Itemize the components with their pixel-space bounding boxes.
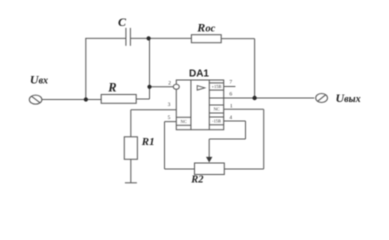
svg-text:4: 4	[229, 115, 232, 121]
svg-text:1: 1	[230, 104, 233, 110]
svg-text:7: 7	[229, 80, 232, 86]
svg-text:5: 5	[168, 115, 171, 121]
svg-text:Uвх: Uвх	[30, 73, 48, 87]
svg-text:Uвых: Uвых	[336, 91, 361, 105]
svg-text:NC: NC	[213, 107, 219, 112]
svg-text:+15В: +15В	[212, 84, 222, 89]
svg-text:R1: R1	[141, 136, 155, 148]
svg-text:NC: NC	[181, 119, 187, 124]
svg-text:R: R	[107, 80, 116, 94]
svg-text:2: 2	[168, 80, 171, 86]
svg-text:Rос: Rос	[196, 20, 215, 34]
svg-text:DA1: DA1	[189, 69, 209, 80]
svg-text:-15В: -15В	[212, 119, 221, 124]
svg-text:R2: R2	[190, 174, 204, 185]
svg-text:C: C	[118, 15, 127, 29]
svg-text:6: 6	[229, 92, 232, 98]
svg-text:3: 3	[168, 102, 171, 108]
